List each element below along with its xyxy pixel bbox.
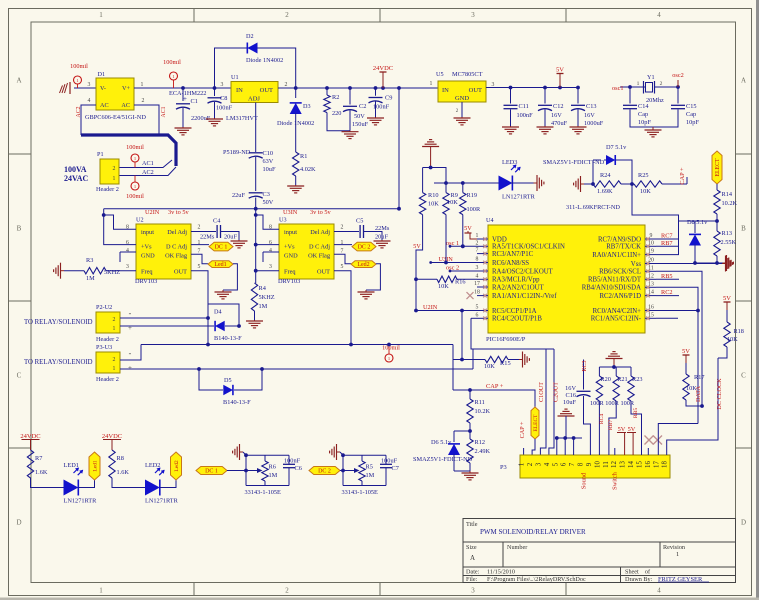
svg-text:6: 6: [476, 312, 479, 318]
svg-text:100mil: 100mil: [163, 59, 181, 66]
svg-text:5: 5: [341, 264, 344, 270]
svg-text:AC2: AC2: [142, 169, 154, 176]
svg-text:4: 4: [657, 587, 661, 595]
svg-text:100nF: 100nF: [284, 458, 301, 465]
svg-text:Header 2: Header 2: [96, 336, 119, 343]
svg-text:DATA: DATA: [695, 385, 702, 402]
svg-text:3: 3: [126, 264, 129, 270]
svg-text:TO RELAY/SOLENOID: TO RELAY/SOLENOID: [24, 319, 93, 326]
svg-text:MC7805CT: MC7805CT: [452, 71, 483, 78]
svg-text:C8: C8: [220, 95, 227, 102]
svg-text:DC 1: DC 1: [215, 245, 228, 251]
svg-text:3v to 5v: 3v to 5v: [310, 209, 331, 216]
svg-text:RA3/MCLR/Vpp: RA3/MCLR/Vpp: [492, 277, 540, 284]
svg-text:A: A: [470, 554, 475, 562]
svg-text:U3IN: U3IN: [283, 209, 298, 216]
svg-text:2: 2: [660, 81, 663, 87]
svg-text:DC CLOCK: DC CLOCK: [716, 378, 723, 410]
svg-text:18: 18: [662, 461, 669, 468]
svg-text:RB7: RB7: [661, 240, 673, 247]
svg-text:R21: R21: [617, 376, 628, 383]
svg-text:RA4/OSC2/CLKOUT: RA4/OSC2/CLKOUT: [492, 268, 554, 275]
svg-text:TO RELAY/SOLENOID: TO RELAY/SOLENOID: [24, 359, 93, 366]
svg-text:C5: C5: [356, 218, 363, 225]
svg-text:2: 2: [476, 240, 479, 246]
svg-text:AC2: AC2: [76, 106, 82, 117]
svg-text:16V: 16V: [584, 112, 595, 119]
svg-text:DC 2: DC 2: [358, 245, 371, 251]
svg-text:C2: C2: [359, 103, 366, 110]
svg-text:10uF: 10uF: [263, 166, 276, 173]
svg-text:VDD: VDD: [492, 236, 507, 243]
svg-text:2.55K: 2.55K: [721, 239, 737, 246]
svg-text:U2IN: U2IN: [423, 304, 438, 311]
svg-text:C4: C4: [213, 218, 221, 225]
svg-text:24VDC: 24VDC: [373, 65, 393, 72]
svg-text:5V: 5V: [413, 244, 421, 250]
svg-text:10K: 10K: [640, 188, 651, 195]
svg-text:GND: GND: [284, 253, 298, 260]
svg-text:IN: IN: [236, 87, 243, 94]
svg-text:RA0/AN1/C1IN+: RA0/AN1/C1IN+: [592, 252, 641, 259]
svg-text:2: 2: [341, 225, 344, 231]
svg-text:CAP +: CAP +: [519, 421, 526, 438]
svg-text:13: 13: [620, 461, 627, 468]
svg-text:100R 100R 100R: 100R 100R 100R: [590, 400, 635, 407]
svg-text:Header 2: Header 2: [96, 186, 119, 193]
svg-text:P1: P1: [97, 151, 104, 158]
svg-text:5V: 5V: [618, 426, 626, 433]
svg-text:V+: V+: [122, 85, 130, 92]
svg-text:1M: 1M: [259, 303, 268, 310]
svg-text:U2: U2: [136, 217, 144, 224]
svg-text:Led2: Led2: [174, 460, 180, 472]
svg-text:ADJ: ADJ: [248, 96, 260, 103]
svg-text:1.6K: 1.6K: [35, 469, 48, 476]
svg-text:11: 11: [603, 461, 610, 468]
svg-text:+: +: [128, 364, 132, 372]
svg-text:A: A: [741, 77, 746, 85]
svg-text:DC 1: DC 1: [205, 469, 218, 475]
svg-text:R12: R12: [475, 439, 486, 446]
svg-text:2: 2: [113, 357, 116, 363]
svg-text:DRV103: DRV103: [278, 278, 300, 285]
svg-text:8: 8: [578, 462, 585, 466]
svg-text:10pF: 10pF: [686, 119, 699, 126]
svg-text:RA2/AN2/C1OUT: RA2/AN2/C1OUT: [492, 284, 545, 291]
svg-text:470uF: 470uF: [551, 120, 568, 127]
svg-text:220: 220: [332, 110, 341, 117]
svg-text:4: 4: [126, 248, 129, 254]
svg-text:LED2: LED2: [145, 462, 160, 469]
svg-text:8: 8: [476, 257, 479, 263]
svg-text:1M: 1M: [269, 472, 278, 479]
svg-text:OK Flag: OK Flag: [165, 253, 188, 260]
svg-text:6: 6: [561, 462, 568, 466]
svg-text:R6: R6: [269, 464, 276, 471]
svg-text:Diode 1N4002: Diode 1N4002: [277, 120, 314, 127]
svg-text:10K: 10K: [484, 363, 495, 370]
svg-text:1: 1: [76, 78, 78, 83]
svg-text:50V: 50V: [263, 199, 274, 206]
svg-text:1: 1: [172, 74, 174, 79]
svg-text:Cap: Cap: [686, 111, 696, 118]
svg-text:33143-1-105E: 33143-1-105E: [342, 489, 379, 496]
svg-text:11/15/2010: 11/15/2010: [487, 569, 515, 576]
svg-text:C3: C3: [263, 191, 270, 198]
svg-text:D8 5.1v: D8 5.1v: [687, 219, 708, 226]
svg-text:Switch: Switch: [612, 471, 619, 490]
svg-text:DC 2: DC 2: [318, 469, 331, 475]
svg-text:Header 2: Header 2: [96, 376, 119, 383]
svg-text:10K: 10K: [727, 336, 738, 343]
svg-text:5KHZ: 5KHZ: [259, 294, 275, 301]
svg-text:3: 3: [535, 462, 542, 466]
svg-text:R15: R15: [500, 360, 511, 367]
svg-text:16V: 16V: [551, 112, 562, 119]
svg-text:1: 1: [99, 587, 103, 595]
svg-text:1: 1: [99, 11, 103, 19]
svg-text:B140-13-F: B140-13-F: [214, 335, 242, 342]
svg-text:R11: R11: [475, 399, 485, 406]
svg-text:17: 17: [653, 461, 660, 468]
svg-text:R24: R24: [600, 172, 611, 179]
svg-text:RB5: RB5: [661, 273, 673, 280]
svg-text:20Mhz: 20Mhz: [646, 97, 664, 104]
svg-text:3: 3: [88, 82, 91, 88]
svg-text:1: 1: [113, 176, 116, 182]
svg-text:5V: 5V: [723, 295, 731, 302]
svg-text:D6 5.1v: D6 5.1v: [431, 439, 452, 446]
svg-text:2: 2: [198, 225, 201, 231]
svg-text:50V: 50V: [354, 113, 365, 120]
svg-text:-: -: [129, 349, 132, 358]
svg-text:OK Flag: OK Flag: [308, 253, 331, 260]
svg-text:C15: C15: [686, 103, 697, 110]
svg-text:16V: 16V: [565, 385, 576, 392]
svg-text:C: C: [17, 372, 22, 380]
svg-text:F:\Program Files\..\2RelayDRV.: F:\Program Files\..\2RelayDRV.SchDoc: [487, 576, 586, 583]
svg-text:C6: C6: [295, 465, 302, 472]
svg-text:22Ms: 22Ms: [375, 225, 390, 232]
svg-text:C2OUT: C2OUT: [553, 382, 560, 402]
svg-text:311-L.69KFRCT-ND: 311-L.69KFRCT-ND: [566, 204, 620, 211]
svg-text:5KHZ: 5KHZ: [104, 269, 120, 276]
svg-text:D3: D3: [303, 103, 311, 110]
svg-text:osc 2: osc 2: [446, 265, 459, 272]
svg-text:5: 5: [552, 462, 559, 466]
svg-text:+: +: [183, 95, 187, 103]
svg-text:5V: 5V: [464, 225, 472, 232]
svg-text:1000uF: 1000uF: [584, 120, 604, 127]
svg-text:5: 5: [198, 264, 201, 270]
svg-text:OUT: OUT: [260, 87, 273, 94]
svg-text:100mil: 100mil: [126, 193, 144, 200]
svg-text:RC0/AN4/C2IN+: RC0/AN4/C2IN+: [593, 308, 642, 315]
svg-text:R20: R20: [600, 376, 611, 383]
svg-text:LN1271RTR: LN1271RTR: [145, 498, 179, 505]
svg-text:1: 1: [134, 184, 136, 189]
svg-text:RB6/SCK/SCL: RB6/SCK/SCL: [599, 269, 641, 276]
svg-text:7: 7: [569, 462, 576, 466]
svg-text:Vss: Vss: [631, 261, 642, 268]
svg-text:22uF: 22uF: [232, 192, 245, 199]
svg-text:3: 3: [269, 264, 272, 270]
svg-text:-: -: [129, 309, 132, 318]
svg-text:20uF: 20uF: [224, 234, 237, 241]
svg-text:Led1: Led1: [92, 460, 98, 472]
svg-text:100nF: 100nF: [517, 112, 534, 119]
svg-text:12: 12: [611, 461, 618, 468]
svg-text:input: input: [284, 229, 297, 236]
svg-text:RB5/AN11/RX/DT: RB5/AN11/RX/DT: [588, 277, 642, 284]
svg-text:1: 1: [676, 551, 679, 558]
svg-text:R18: R18: [734, 328, 744, 335]
svg-text:ELECT: ELECT: [533, 414, 539, 432]
svg-text:osc1: osc1: [612, 85, 624, 92]
svg-text:24VAC: 24VAC: [64, 174, 89, 183]
svg-text:2: 2: [285, 82, 288, 88]
svg-text:1M: 1M: [366, 472, 375, 479]
svg-text:GBPC606-E4/51GI-ND: GBPC606-E4/51GI-ND: [85, 114, 146, 121]
svg-text:4.02K: 4.02K: [300, 166, 316, 173]
svg-text:Y1: Y1: [647, 74, 655, 81]
svg-text:10K: 10K: [447, 199, 458, 206]
svg-text:RA1/AN1/C12IN-/Vref: RA1/AN1/C12IN-/Vref: [492, 293, 557, 300]
svg-text:22Ms: 22Ms: [200, 234, 215, 241]
svg-text:1: 1: [430, 81, 433, 87]
svg-text:+Vs: +Vs: [141, 244, 152, 251]
svg-text:RC2/AN6/P1D: RC2/AN6/P1D: [599, 293, 641, 300]
svg-text:150uF: 150uF: [352, 121, 369, 128]
svg-text:GND: GND: [141, 253, 155, 260]
svg-text:R9: R9: [451, 192, 458, 199]
svg-text:C13: C13: [586, 103, 597, 110]
svg-text:R8: R8: [117, 455, 124, 462]
svg-text:10: 10: [594, 461, 601, 468]
svg-text:100mil: 100mil: [70, 63, 88, 70]
svg-text:10uF: 10uF: [563, 399, 576, 406]
svg-text:OUT: OUT: [317, 269, 330, 276]
svg-text:R2: R2: [332, 94, 339, 101]
svg-text:63V: 63V: [263, 158, 274, 165]
svg-text:3: 3: [476, 265, 479, 271]
svg-text:100R: 100R: [467, 206, 481, 213]
svg-text:IN: IN: [442, 87, 449, 94]
svg-text:RC2: RC2: [661, 289, 673, 296]
svg-text:R3: R3: [86, 257, 93, 264]
svg-text:1: 1: [519, 462, 526, 466]
svg-text:U1: U1: [231, 74, 239, 81]
svg-text:4: 4: [544, 462, 551, 466]
svg-text:C9: C9: [385, 95, 392, 102]
svg-text:2: 2: [142, 98, 145, 104]
svg-text:4: 4: [476, 273, 479, 279]
svg-text:100nF: 100nF: [216, 105, 233, 112]
svg-text:DRV103: DRV103: [135, 278, 157, 285]
svg-text:D4: D4: [214, 309, 222, 316]
svg-text:C1: C1: [191, 98, 198, 105]
svg-text:OUT: OUT: [469, 87, 482, 94]
svg-text:1: 1: [388, 356, 390, 361]
svg-text:LM317HVT: LM317HVT: [226, 115, 258, 122]
svg-text:D5: D5: [224, 377, 232, 384]
svg-text:D C Adj: D C Adj: [309, 244, 330, 251]
svg-text:AC1: AC1: [161, 106, 167, 117]
svg-text:100VA: 100VA: [64, 165, 87, 174]
svg-text:File:: File:: [466, 576, 478, 583]
svg-text:100mil: 100mil: [382, 345, 400, 352]
svg-text:RC3: RC3: [582, 360, 588, 371]
svg-text:U2IN: U2IN: [145, 209, 160, 216]
svg-text:C11: C11: [519, 103, 529, 110]
svg-text:osc 1: osc 1: [446, 240, 459, 247]
svg-text:D2: D2: [246, 33, 254, 40]
svg-text:2.49K: 2.49K: [475, 448, 491, 455]
svg-text:R1: R1: [300, 153, 307, 160]
svg-text:1.69K: 1.69K: [597, 188, 613, 195]
svg-text:Sheet of: Sheet of: [625, 569, 651, 576]
svg-text:SMAZ5V1-FDICT-ND: SMAZ5V1-FDICT-ND: [413, 456, 473, 463]
svg-text:RC6/AN8/SS: RC6/AN8/SS: [492, 260, 529, 267]
svg-text:RB5: RB5: [633, 408, 639, 418]
svg-text:Diode 1N4002: Diode 1N4002: [246, 57, 283, 64]
svg-text:D: D: [16, 519, 21, 527]
svg-text:10pF: 10pF: [638, 119, 651, 126]
svg-text:Del Adj: Del Adj: [310, 229, 330, 236]
svg-text:B140-13-F: B140-13-F: [223, 399, 251, 406]
svg-text:2: 2: [285, 587, 289, 595]
svg-text:D: D: [741, 519, 746, 527]
svg-text:GND: GND: [455, 95, 469, 102]
svg-text:LN1271RTR: LN1271RTR: [502, 194, 536, 201]
svg-text:+: +: [128, 324, 132, 332]
svg-text:ECA-1HM222: ECA-1HM222: [169, 90, 206, 97]
svg-text:RB7/TX/CK: RB7/TX/CK: [606, 244, 641, 251]
svg-text:1: 1: [134, 156, 136, 161]
svg-text:A: A: [16, 77, 21, 85]
svg-text:P3: P3: [500, 464, 507, 471]
svg-text:U3: U3: [279, 217, 287, 224]
svg-text:ELECT: ELECT: [715, 158, 721, 176]
svg-text:2: 2: [527, 462, 534, 466]
svg-text:2: 2: [113, 166, 116, 172]
svg-text:C12: C12: [553, 103, 564, 110]
svg-text:R19: R19: [467, 192, 478, 199]
svg-text:C1OUT: C1OUT: [538, 382, 545, 402]
svg-text:R10: R10: [428, 192, 439, 199]
svg-text:Revision: Revision: [663, 544, 685, 551]
svg-text:R14: R14: [722, 191, 733, 198]
svg-text:10.2K: 10.2K: [475, 408, 491, 415]
svg-text:1: 1: [637, 81, 640, 87]
svg-text:3: 3: [471, 587, 475, 595]
svg-text:U4: U4: [486, 217, 494, 224]
svg-text:osc2: osc2: [672, 72, 684, 79]
svg-text:100uF: 100uF: [381, 458, 398, 465]
svg-text:PWM SOLENOID/RELAY DRIVER: PWM SOLENOID/RELAY DRIVER: [480, 528, 586, 536]
svg-text:AC: AC: [121, 102, 130, 109]
svg-text:Title: Title: [466, 521, 478, 528]
svg-text:4: 4: [269, 248, 272, 254]
svg-text:4: 4: [88, 98, 91, 104]
svg-text:C: C: [741, 372, 746, 380]
svg-text:R5: R5: [366, 464, 373, 471]
svg-text:3: 3: [471, 11, 475, 19]
svg-text:AC1: AC1: [142, 160, 154, 167]
svg-text:RB7: RB7: [608, 420, 614, 430]
svg-text:Date:: Date:: [466, 569, 480, 576]
svg-text:1M: 1M: [86, 275, 95, 282]
svg-text:7: 7: [198, 249, 201, 255]
svg-text:RC4: RC4: [599, 414, 605, 424]
svg-text:CAP +: CAP +: [679, 167, 686, 185]
svg-text:C14: C14: [638, 103, 649, 110]
svg-text:RC1/AN5/C12IN-: RC1/AN5/C12IN-: [591, 316, 642, 323]
svg-text:9: 9: [650, 233, 653, 239]
svg-text:2: 2: [113, 317, 116, 323]
svg-text:17: 17: [474, 281, 480, 287]
svg-text:1: 1: [141, 82, 144, 88]
svg-text:Size: Size: [466, 544, 477, 551]
svg-text:PIC16F690E/P: PIC16F690E/P: [486, 336, 526, 343]
svg-text:C10: C10: [263, 150, 274, 157]
svg-text:3: 3: [221, 82, 224, 88]
svg-text:1.6K: 1.6K: [117, 469, 130, 476]
svg-text:R7: R7: [35, 455, 42, 462]
svg-text:CAP +: CAP +: [486, 383, 504, 390]
svg-text:10K: 10K: [438, 283, 449, 290]
svg-text:18: 18: [474, 290, 480, 296]
svg-text:5V: 5V: [556, 67, 564, 74]
svg-text:LED1: LED1: [64, 462, 79, 469]
svg-text:R25: R25: [638, 172, 649, 179]
svg-text:P2-U2: P2-U2: [96, 304, 112, 311]
svg-text:OUT: OUT: [174, 269, 187, 276]
svg-text:RC7: RC7: [661, 233, 673, 240]
svg-text:RC5/CCP1/P1A: RC5/CCP1/P1A: [492, 308, 537, 315]
svg-text:Drawn By:: Drawn By:: [625, 576, 653, 583]
svg-text:100mil: 100mil: [126, 144, 144, 151]
svg-text:1: 1: [476, 233, 479, 239]
svg-text:16: 16: [645, 461, 652, 468]
svg-text:+Vs: +Vs: [284, 244, 295, 251]
svg-text:Led2: Led2: [357, 262, 369, 268]
svg-text:Cap: Cap: [638, 111, 648, 118]
svg-text:10K: 10K: [428, 201, 439, 208]
svg-text:R4: R4: [259, 285, 267, 292]
svg-text:B: B: [741, 225, 746, 233]
svg-text:RB4/AN10/SDI/SDA: RB4/AN10/SDI/SDA: [582, 285, 641, 292]
svg-text:Del Adj: Del Adj: [167, 229, 187, 236]
svg-text:RC3/AN7/P1C: RC3/AN7/P1C: [492, 251, 534, 258]
svg-text:V-: V-: [100, 85, 106, 92]
svg-text:C16: C16: [566, 392, 577, 399]
svg-text:LN1271RTR: LN1271RTR: [64, 498, 98, 505]
svg-text:7: 7: [341, 249, 344, 255]
svg-text:7: 7: [476, 248, 479, 254]
svg-text:D7 5.1v: D7 5.1v: [606, 144, 627, 151]
svg-text:B: B: [17, 225, 22, 233]
svg-text:C7: C7: [392, 465, 399, 472]
svg-text:P5189-ND: P5189-ND: [223, 149, 251, 156]
svg-text:P3-U3: P3-U3: [96, 344, 112, 351]
svg-text:R17: R17: [694, 374, 705, 381]
svg-text:4: 4: [657, 11, 661, 19]
svg-text:5V: 5V: [682, 348, 690, 355]
svg-text:5V: 5V: [628, 426, 636, 433]
svg-text:D1: D1: [98, 71, 106, 78]
